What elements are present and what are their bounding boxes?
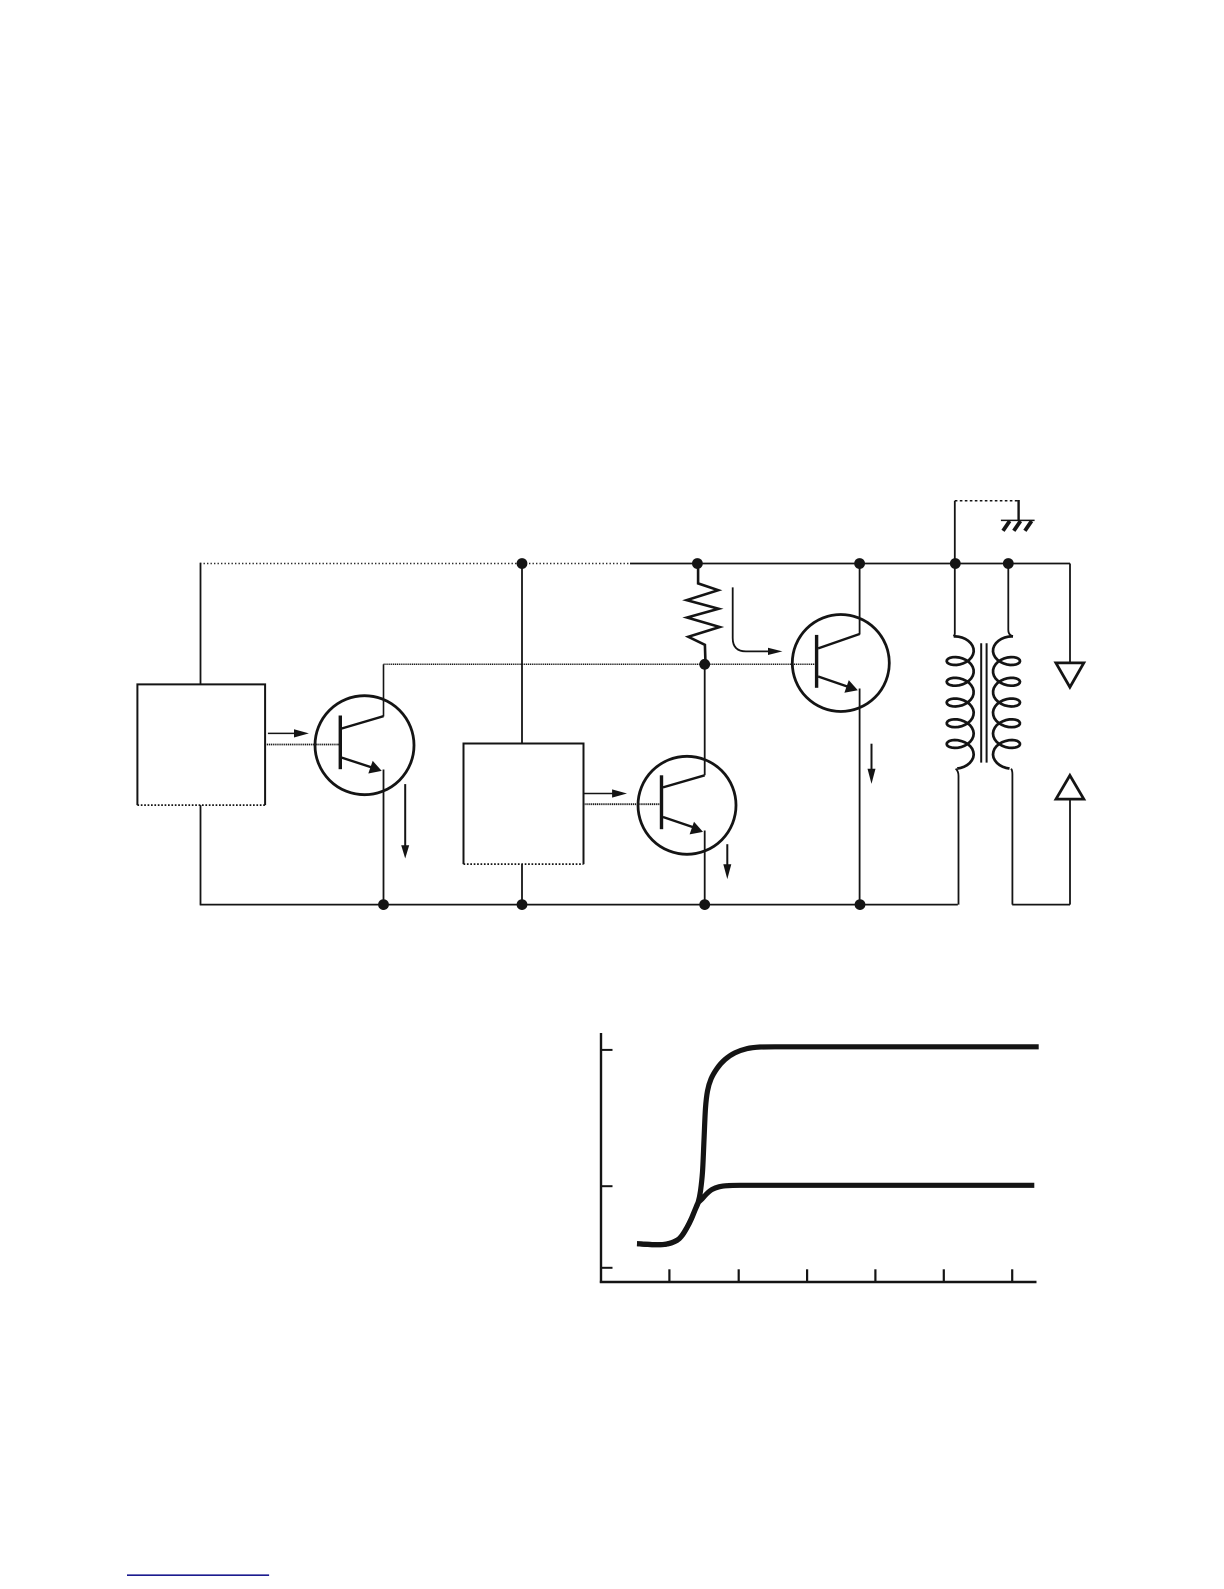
signal arrow into Q1 [268,732,296,734]
wire Q1 emitter to bottom rail [383,770,385,905]
output terminal up triangle [1056,775,1084,799]
ground hatch 3 [1025,521,1032,531]
transistor Q1 collector diagonal [342,716,384,728]
graph curve lower [637,1185,1034,1244]
graph y ticks [601,1049,613,1051]
current arrow I3 [871,744,873,770]
transistor Q2 circle [638,756,736,854]
transistor Q1 emitter arrowhead [368,761,381,774]
wire box U1 to Q1 base [265,744,340,746]
junction node bottom rail at box U2 [517,899,528,910]
hook arrow into Q3 base node [733,587,770,651]
transistor Q1 emitter diagonal [342,758,372,768]
wire Q2 emitter to bottom rail [704,831,706,905]
wire bottom rail [200,904,958,906]
junction dots top rail [378,558,1014,910]
block box U2 [464,744,584,865]
transistor Q2 collector diagonal [663,775,705,787]
transistor Q1 base bar [339,716,342,770]
wire Q3 emitter to bottom rail [859,689,861,905]
wire left vertical upper [200,563,202,685]
wire box U2 to Q2 base [584,803,662,805]
transformer T1 primary winding [947,636,974,768]
transistor Q3 emitter arrowhead [844,680,857,693]
transformer T1 primary top lead [954,564,955,637]
ground hatch 1 [1003,521,1010,531]
transformer T1 core [980,643,982,762]
transformer T1 secondary winding [993,636,1020,768]
junction node top rail at Q3 collector [854,558,865,569]
transistor Q3 emitter diagonal [818,677,848,687]
transistor Q2 emitter diagonal [663,817,694,828]
junction node top rail at transformer primary [950,558,961,569]
junction node bottom rail at Q3 emitter [855,899,866,910]
graph x axis [600,1281,1037,1284]
output terminal down triangle [1056,663,1084,687]
wire top rail dotted segment [200,563,630,565]
transistor Q2 base bar [660,775,663,829]
wire top rail to box U2 [521,564,523,744]
junction node base rail / resistor bottom [699,659,710,670]
transformer T1 primary bottom lead [956,769,959,905]
current arrow I1 [404,784,406,846]
wire left vertical lower [200,805,202,905]
transistor Q3 collector diagonal [818,634,859,648]
wire base rail from Q1 collector to Q3 base [383,664,385,716]
transformer T1 secondary bottom lead [1011,769,1012,905]
transistor Q1 circle [315,696,414,795]
wire up triangle to bottom [1069,799,1071,905]
ground bar [1001,519,1035,521]
ground wire vertical left to rail [954,501,956,564]
wire Q3 collector to top rail [859,564,861,635]
junction node top rail at transformer secondary [1003,558,1014,569]
junction node bottom rail at Q2 emitter [699,899,710,910]
wire top rail solid segment [630,563,1070,565]
junction node bottom rail at Q1 emitter [378,899,389,910]
transistor Q3 circle [792,615,889,712]
wire box U2 to bottom rail [521,864,523,905]
transistor Q3 base bar [815,635,818,688]
current arrow I2 [726,844,728,865]
transistor Q2 emitter arrowhead [690,822,703,835]
junction node top rail at resistor [692,558,703,569]
resistor R1 [687,564,720,665]
ground wire vertical right [1017,500,1019,520]
graph y axis [600,1033,602,1283]
wire top rail right end down to output arrow [1069,564,1071,663]
link underline [127,1574,269,1576]
wire Q2 collector to base-rail junction [704,664,706,775]
block box U1 [137,684,265,805]
wire secondary bottom to output [1012,904,1070,906]
transformer T1 secondary top lead [1008,564,1013,637]
ground hatch 2 [1014,521,1021,531]
ground wire dashed horizontal [955,500,1019,502]
graph x ticks [668,1269,670,1282]
signal arrow into Q2 [584,793,613,795]
graph curve upper [637,1047,1039,1245]
